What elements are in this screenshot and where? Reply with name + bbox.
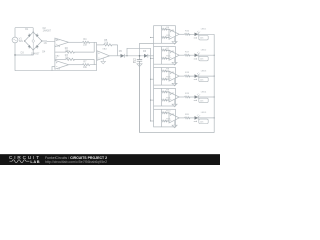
wire OA8 output [179, 117, 184, 119]
op-amp OA5 [169, 50, 179, 60]
wire junction up to box1 [140, 43, 154, 55]
stage 5 inner rail wire [161, 109, 163, 127]
wire ladder bus link stage 4 [153, 106, 155, 109]
LED2 [195, 53, 199, 57]
junction stage 1 bus stub [150, 37, 151, 38]
capacitor label C1 [133, 60, 137, 64]
net flag stage 4 [199, 98, 208, 102]
junction stage 3 rail [214, 76, 215, 77]
junction stage 5 bus stub [150, 120, 151, 121]
ground below OA7 [172, 100, 177, 107]
wire bridge to opamp A [42, 40, 55, 42]
wire LED3 to rail [198, 75, 214, 77]
comparator stage 4 box [154, 88, 176, 106]
op-amp A [55, 38, 69, 47]
junction stage 2 bus stub [150, 58, 151, 59]
LED3 [195, 74, 199, 78]
op-amp C output wire [110, 55, 121, 57]
wire ladder bus link stage 2 [153, 64, 155, 67]
wire top left [15, 28, 33, 32]
resistor R17 [185, 54, 195, 56]
ground below OA5 [172, 58, 177, 65]
resistor R10 [162, 112, 170, 114]
resistor R4 [83, 41, 97, 43]
wire bridge bottom [15, 50, 33, 55]
resistor R18 [185, 75, 195, 77]
resistor R19 [185, 96, 195, 98]
wire LED2 to rail [198, 54, 214, 56]
feedback resistor R2 row [55, 51, 66, 53]
LED5 [195, 116, 199, 120]
resistor R6 [162, 28, 170, 30]
svg-text:http:​//circuitlab.com/c/5e7f5: http:​//circuitlab.com/c/5e7f56bab6q95e2 [45, 160, 107, 164]
comparator stage 2 box [154, 47, 176, 65]
diode D5 [121, 54, 125, 58]
reference bus [150, 48, 152, 121]
LED1 [195, 33, 199, 37]
ground below OA8 [172, 121, 177, 128]
diode D1 top-left [28, 34, 31, 37]
resistor R11 [162, 37, 170, 39]
diode D3 bottom-left [28, 45, 31, 48]
junction at reference stub [126, 55, 127, 56]
wire ladder bus link stage 1 [153, 43, 155, 46]
resistor R12 [162, 57, 170, 59]
junction stage 5 rail [214, 117, 215, 118]
wire LED5 to rail [198, 117, 214, 119]
op-amp OA6 [169, 71, 179, 81]
junction stage 4 bus stub [150, 100, 151, 101]
wire reference bus stub stage 2 [151, 57, 154, 59]
LED4 [195, 95, 199, 99]
wire OA6 output [179, 75, 184, 77]
bridge rectifier diamond [25, 32, 42, 50]
ground below OA6 [172, 79, 177, 86]
resistor R7 [162, 49, 170, 51]
bridge vertex dots [24, 32, 43, 51]
junction stage 3 bus stub [150, 79, 151, 80]
stub to opamp B input [52, 67, 55, 71]
wire OA5 output [179, 54, 184, 56]
footer bar [0, 154, 220, 165]
junction node at C1 [139, 55, 141, 57]
CircuitLab logo [9, 155, 107, 164]
net flag stage 1 [199, 36, 208, 40]
op-amp C [97, 51, 110, 60]
net flag stage 2 [199, 56, 208, 60]
wire OA7 output [179, 96, 184, 98]
comparator stage 1 box [154, 26, 176, 44]
op-amp B [55, 60, 69, 69]
diode D6 [144, 54, 148, 58]
junction stage 2 rail [214, 55, 215, 56]
diode D2 top-right [36, 34, 39, 37]
op-amp OA8 [169, 113, 179, 123]
resistor R7 [83, 64, 97, 66]
feedback resistor R3 row [55, 58, 66, 60]
wire LED1 to rail [198, 33, 214, 35]
wire OA4 output [179, 33, 184, 35]
wire LED4 to rail [198, 96, 214, 98]
comparator stage 3 box [154, 68, 176, 86]
stage 2 inner rail wire [161, 47, 163, 65]
bottom return wire [140, 132, 215, 134]
stub up and over [127, 48, 151, 56]
resistor R13 [162, 78, 170, 80]
stage 1 inner rail wire [161, 26, 163, 44]
wire reference bus stub stage 5 [151, 120, 154, 122]
wire ground return left [15, 55, 97, 71]
net flag stage 3 [199, 77, 208, 81]
diode D4 bottom-right [36, 45, 39, 48]
resistor R15 [162, 120, 170, 122]
wire reference bus stub stage 3 [151, 78, 154, 80]
op-amp A output wire [69, 41, 83, 43]
op-amp OA4 [169, 29, 179, 39]
voltage source V1 [12, 37, 18, 43]
ground at capacitor [137, 64, 142, 67]
feedback vertical A-B [54, 45, 56, 62]
resistor R8 [162, 70, 170, 72]
stage 3 inner rail wire [161, 68, 163, 86]
junction stage 4 rail [214, 96, 215, 97]
wire reference bus stub stage 4 [151, 99, 154, 101]
right rail [213, 34, 215, 132]
wire ladder bus link stage 3 [153, 85, 155, 88]
resistor R16 [185, 33, 195, 35]
capacitor C1 column [137, 56, 142, 133]
resistor R5 top row [97, 44, 104, 46]
svg-text:LAB: LAB [30, 159, 40, 164]
summing bus [96, 42, 98, 70]
ground below op-amp C [101, 58, 106, 64]
ground below OA4 [172, 37, 177, 44]
op-amp B output wire [69, 64, 83, 66]
stage 4 inner rail wire [161, 88, 163, 106]
comparator stage 5 box [154, 109, 176, 127]
resistor R9 [162, 91, 170, 93]
net flag stage 5 [199, 119, 208, 123]
junction source bottom node [14, 54, 15, 55]
op-amp OA7 [169, 92, 179, 102]
wire reference bus stub stage 1 [151, 36, 154, 38]
bridge center mark [32, 40, 34, 42]
resistor R20 [185, 117, 195, 119]
resistor R14 [162, 99, 170, 101]
